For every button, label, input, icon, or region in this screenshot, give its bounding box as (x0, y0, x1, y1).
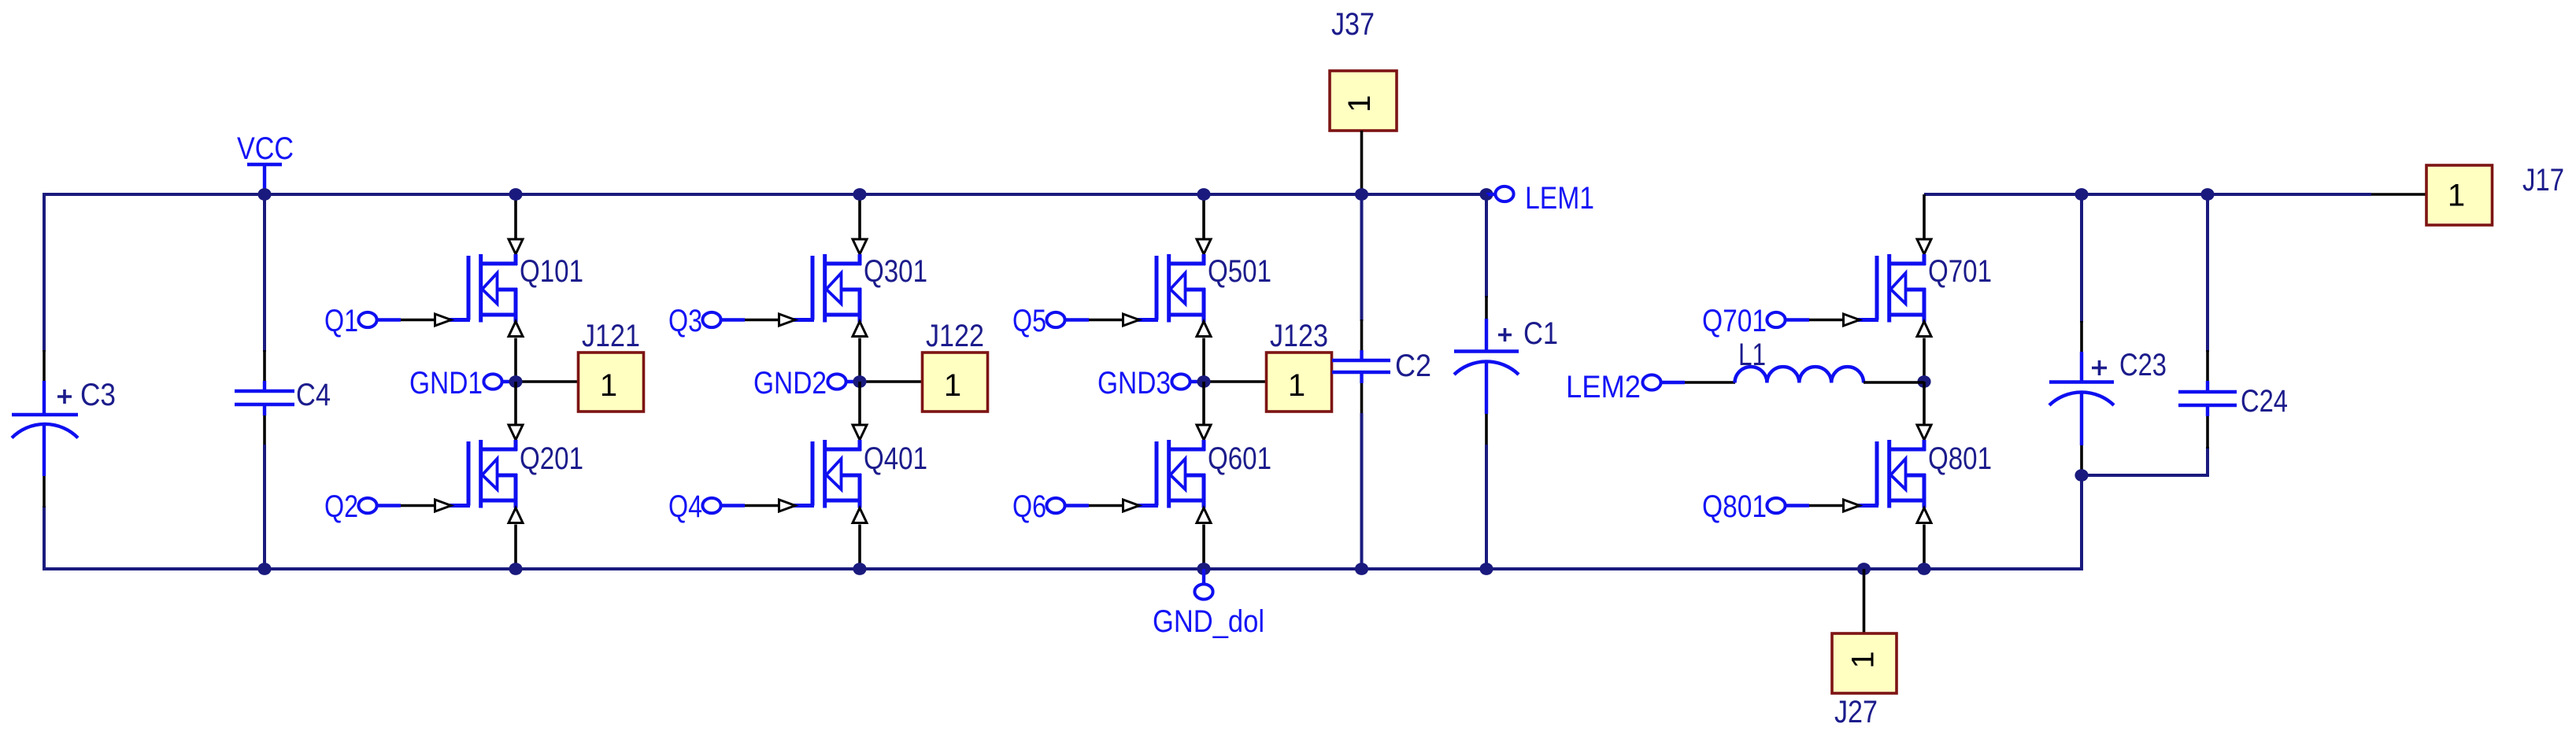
svg-text:Q1: Q1 (324, 304, 358, 338)
pin circle Q5 (1046, 312, 1064, 327)
capacitor C4 (235, 381, 294, 415)
wire: Q301 drain wire from top bus (858, 194, 861, 238)
node mid junction at Q101/Q201 (509, 375, 522, 388)
capacitor C3 (polarized) (12, 381, 78, 476)
wire: Q4 gate wire (721, 504, 778, 507)
node bottom bus junction Q201 (509, 563, 522, 575)
wire: GND_dol stub (1202, 569, 1205, 584)
wire: mid node to J123 box (1204, 380, 1268, 383)
svg-text:C4: C4 (296, 378, 331, 412)
wire: J27 to bottom bus (1863, 569, 1866, 633)
wire: Q701 drain wire from top bus (1923, 194, 1926, 238)
pin arrow into Q601 drain (1197, 425, 1211, 440)
wire: Q5 gate wire (1065, 318, 1122, 321)
pin circle Q2 (358, 498, 376, 513)
node bottom bus junction C2 (1355, 563, 1368, 575)
wire: J37 to top bus (1360, 131, 1364, 194)
wire: mid node to Q401 drain (858, 382, 861, 424)
pin circle Q701 (1767, 312, 1785, 327)
wire: Q401 source to bottom bus (858, 525, 861, 570)
wire: mid node to Q601 drain (1202, 382, 1205, 424)
pin circle Q3 (702, 312, 720, 327)
pin arrow into Q601 gate (1123, 500, 1140, 511)
transistor Q301 (794, 254, 861, 323)
wire: C23 bottom riser (2080, 475, 2083, 570)
pin: C23 bottom black (2080, 445, 2083, 475)
svg-text:Q701: Q701 (1928, 254, 1992, 289)
wire: Q501 drain wire from top bus (1202, 194, 1205, 238)
pin: C4 bottom black (263, 404, 266, 446)
pin arrow into Q401 gate (779, 500, 796, 511)
node top bus junction C23 (2074, 188, 2088, 201)
svg-text:1: 1 (944, 368, 961, 403)
wire: mid node to J122 box (860, 380, 923, 383)
svg-text:J17: J17 (2522, 163, 2564, 198)
wire: C24 branch navy top (2206, 194, 2209, 352)
wire: Q801 gate wire (1786, 504, 1842, 507)
node bottom bus junction Q601 (1197, 563, 1210, 575)
svg-text:Q3: Q3 (668, 304, 702, 338)
wire: C24 bottom riser (2206, 447, 2209, 477)
wire: Q301 source to mid node (858, 338, 861, 383)
connector J122 box (923, 353, 988, 412)
transistor Q401 (794, 440, 861, 508)
pin arrow into Q701 source (1917, 322, 1931, 337)
inductor L1 (1735, 367, 1864, 382)
wire: left bus lower segment (43, 506, 46, 570)
svg-text:L1: L1 (1738, 338, 1766, 372)
svg-text:C1: C1 (1523, 316, 1558, 351)
svg-text:1: 1 (2448, 179, 2465, 213)
svg-text:Q5: Q5 (1012, 304, 1046, 338)
node bottom bus junction Q801 (1917, 563, 1930, 575)
wire: Q501 source to mid node (1202, 338, 1205, 383)
pin: C1 bottom black (1485, 413, 1488, 446)
transistor Q201 (450, 440, 517, 508)
wire: GND3 stub to junction (1190, 380, 1204, 383)
label C3 plus sign (57, 389, 72, 404)
pin arrow into Q701 drain (1917, 239, 1931, 254)
wire: mid node to J121 box (516, 380, 579, 383)
pin circle Q801 (1767, 498, 1785, 513)
svg-text:Q701: Q701 (1702, 304, 1767, 338)
node bottom bus junction Q401 (853, 563, 866, 575)
wire: Q701 source to mid node (1923, 338, 1926, 383)
pin circle LEM1 (1495, 186, 1513, 201)
label C23 plus sign (2092, 360, 2107, 375)
svg-text:Q2: Q2 (324, 489, 358, 524)
capacitor C1 (polarized) (1454, 319, 1519, 414)
pin circle Q1 (358, 312, 376, 327)
pin: C2 top black (1360, 319, 1364, 352)
svg-text:Q201: Q201 (520, 441, 583, 476)
node top bus junction Q101 (509, 188, 522, 201)
node bottom bus junction C4 (257, 563, 271, 575)
svg-text:GND3: GND3 (1097, 366, 1171, 401)
wire: Q2 gate wire (377, 504, 434, 507)
wire: C23 branch navy top (2080, 194, 2083, 323)
transistor Q701 (1858, 254, 1926, 323)
svg-text:LEM2: LEM2 (1566, 370, 1641, 404)
svg-text:1: 1 (1845, 651, 1880, 668)
wire: Q801 source to bottom bus (1923, 525, 1926, 570)
svg-text:Q601: Q601 (1208, 441, 1271, 476)
power symbol VCC (247, 164, 282, 194)
wire: J17 pin wire (2371, 193, 2426, 196)
svg-text:J121: J121 (582, 319, 640, 353)
wire: L1 to Q701/Q801 mid node (1864, 381, 1924, 384)
svg-text:GND2: GND2 (753, 366, 827, 401)
node bottom bus junction C1 (1479, 563, 1493, 575)
pin: C3 bottom black (43, 474, 46, 508)
wire: LEM2 to L1 (1661, 381, 1735, 384)
pin arrow into Q401 drain (853, 425, 867, 440)
wire: Q701 gate wire (1786, 318, 1842, 321)
svg-text:Q401: Q401 (864, 441, 927, 476)
pin arrow into Q201 gate (435, 500, 452, 511)
wire: Q601 source to bottom bus (1202, 525, 1205, 570)
pin arrow into Q801 gate (1844, 500, 1860, 511)
pin circle LEM2 (1642, 375, 1660, 389)
svg-text:LEM1: LEM1 (1525, 181, 1594, 216)
pin: C1 top black (1485, 296, 1488, 320)
svg-text:Q801: Q801 (1702, 489, 1767, 524)
svg-text:Q501: Q501 (1208, 254, 1271, 289)
pin circle Q4 (702, 498, 720, 513)
svg-text:GND_dol: GND_dol (1153, 604, 1264, 639)
pin: C4 top black (263, 350, 266, 382)
svg-text:J27: J27 (1834, 695, 1878, 729)
pin: C24 bottom black (2206, 415, 2209, 449)
pin arrow into Q601 source (1197, 508, 1211, 523)
wire: mid node to Q801 drain (1923, 382, 1926, 424)
connector J17 box (2426, 165, 2493, 225)
wire: Q1 gate wire (377, 318, 434, 321)
wire: left bus upper segment (43, 193, 46, 352)
pin arrow into Q301 source (853, 322, 867, 337)
wire: C1 branch navy bottom (1485, 445, 1488, 569)
node C23 bottom junction (2074, 469, 2088, 482)
wire: C2 branch navy top (1360, 194, 1364, 321)
node top bus junction C24 (2200, 188, 2214, 201)
node top bus junction VCC/C4 (257, 188, 271, 201)
wire: top right bus (1924, 193, 2371, 196)
connector J37 box (1330, 71, 1397, 131)
node top bus junction Q301 (853, 188, 866, 201)
wire: GND2 stub to junction (846, 380, 860, 383)
pin arrow into Q201 source (509, 508, 523, 523)
pin circle GND1 (483, 374, 502, 389)
node bottom bus junction J27 (1857, 563, 1871, 575)
wire: Q3 gate wire (721, 318, 778, 321)
wire: Q101 source to mid node (514, 338, 517, 383)
pin arrow into Q501 drain (1197, 239, 1211, 254)
pin arrow into Q501 source (1197, 322, 1211, 337)
capacitor C23 (polarized) (2049, 352, 2114, 445)
connector J27 box (1832, 633, 1897, 693)
wire: C23-C24 bottom cross wire (2082, 474, 2208, 477)
capacitor C2 (1332, 350, 1390, 383)
wire: Q201 source to bottom bus (514, 525, 517, 570)
pin circle GND3 (1171, 374, 1190, 389)
wire: GND1 stub to junction (502, 380, 516, 383)
svg-text:GND1: GND1 (409, 366, 483, 401)
wire: mid node to Q201 drain (514, 382, 517, 424)
svg-text:Q101: Q101 (520, 254, 583, 289)
node mid junction at Q301/Q401 (853, 375, 866, 388)
pin arrow into Q301 drain (853, 239, 867, 254)
node mid junction at Q501/Q601 (1197, 375, 1210, 388)
wire: LEM1 stub (1486, 193, 1495, 196)
svg-text:1: 1 (1288, 368, 1305, 403)
pin: C23 top black (2080, 321, 2083, 353)
capacitor C24 (2178, 381, 2237, 416)
pin circle Q6 (1046, 498, 1064, 513)
pin arrow into Q201 drain (509, 425, 523, 440)
pin arrow into Q801 drain (1917, 425, 1931, 440)
svg-text:Q6: Q6 (1012, 489, 1046, 524)
node top bus junction Q501 (1197, 188, 1210, 201)
label C1 plus sign (1498, 328, 1512, 342)
transistor Q601 (1138, 440, 1205, 508)
svg-text:Q4: Q4 (668, 489, 702, 524)
pin circle GND_dol (1194, 584, 1212, 599)
pin arrow into Q301 gate (779, 314, 796, 326)
wire: Q101 drain wire from top bus (514, 194, 517, 238)
wire: bottom bus (43, 567, 2082, 570)
pin: C2 bottom black (1360, 382, 1364, 415)
pin arrow into Q401 source (853, 508, 867, 523)
connector J121 box (579, 353, 644, 412)
node top bus junction J37/C2 (1355, 188, 1368, 201)
pin arrow into Q101 drain (509, 239, 523, 254)
pin arrow into Q101 source (509, 322, 523, 337)
svg-text:J122: J122 (926, 319, 984, 353)
wire: top bus (44, 193, 1486, 196)
svg-text:1: 1 (600, 368, 617, 403)
pin arrow into Q501 gate (1123, 314, 1140, 326)
svg-text:1: 1 (1342, 95, 1377, 113)
pin arrow into Q101 gate (435, 314, 452, 326)
wire: VCC/C4 branch navy top (263, 194, 266, 352)
node bottom bus junction GND_dol (1197, 563, 1210, 575)
svg-text:C2: C2 (1395, 349, 1431, 383)
wire: C2 branch navy bottom (1360, 413, 1364, 569)
wire: C4 branch navy bottom (263, 445, 266, 569)
connector J123 box (1267, 353, 1332, 412)
wire: Q6 gate wire (1065, 504, 1122, 507)
svg-text:J123: J123 (1270, 319, 1328, 353)
svg-text:Q801: Q801 (1928, 441, 1992, 476)
svg-text:C24: C24 (2241, 384, 2288, 419)
node mid junction at Q701/Q801 (1917, 375, 1930, 388)
transistor Q101 (450, 254, 517, 323)
pin: C24 top black (2206, 350, 2209, 382)
wire: C1 branch navy top (1485, 194, 1488, 297)
svg-text:VCC: VCC (237, 131, 294, 166)
svg-text:C23: C23 (2119, 348, 2167, 382)
pin arrow into Q801 source (1917, 508, 1931, 523)
pin circle GND2 (827, 374, 846, 389)
pin arrow into Q701 gate (1844, 314, 1860, 326)
svg-text:C3: C3 (80, 378, 116, 412)
transistor Q801 (1858, 440, 1926, 508)
svg-text:J37: J37 (1331, 7, 1375, 42)
transistor Q501 (1138, 254, 1205, 323)
svg-text:Q301: Q301 (864, 254, 927, 289)
pin: C3 top black (43, 350, 46, 382)
node top bus junction C1/LEM1 (1479, 188, 1493, 201)
